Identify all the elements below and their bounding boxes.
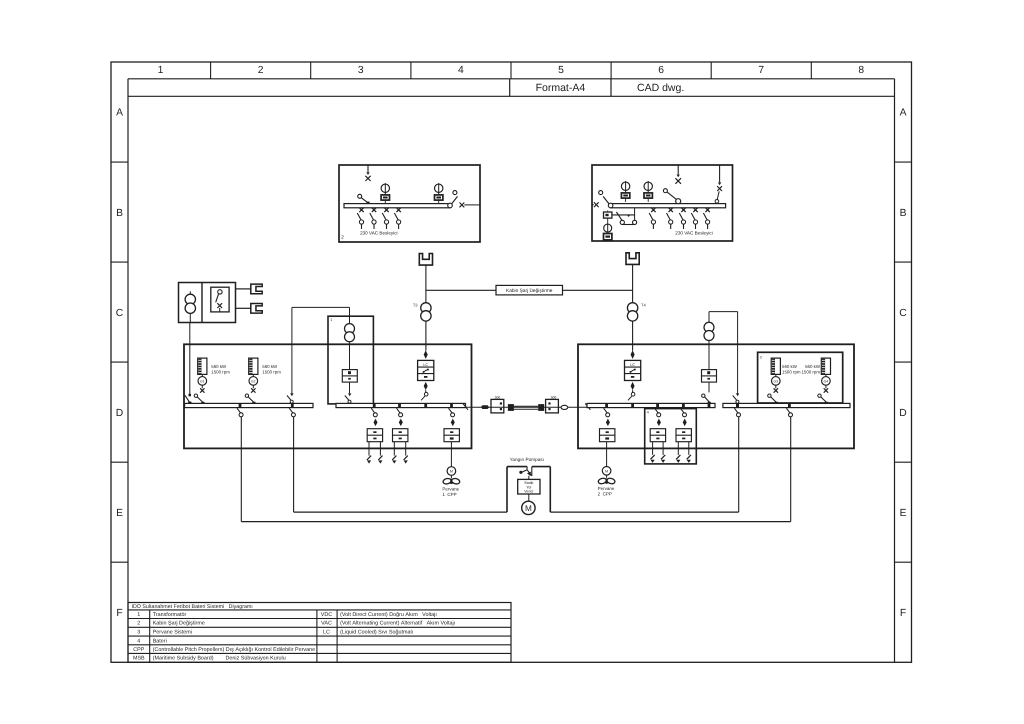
svg-text:D: D [899,408,906,419]
svg-text:1: 1 [158,65,164,76]
battery feeder 1 left [373,403,376,407]
svg-text:4: 4 [137,638,140,644]
svg-text:1: 1 [330,318,332,322]
shore plug upper [251,284,262,294]
branch to lower bus C [736,403,739,407]
transfer switch on busbar [676,199,681,204]
svg-text:LC: LC [630,363,635,367]
svg-text:CAD dwg.: CAD dwg. [637,82,684,94]
tie wire from busbar1 [291,307,293,394]
fuse X incoming [365,176,370,181]
svg-text:B: B [116,208,123,219]
generator enclosure box 3 [758,352,843,403]
svg-text:1500 rpm: 1500 rpm [262,370,281,375]
right feed X [717,186,722,191]
busbar R1 [587,403,715,407]
busbar L1 [185,403,313,407]
wire plug to T3 [425,265,427,303]
svg-text:F: F [900,608,906,619]
transformer shore [189,291,191,294]
svg-text:2 CPP: 2 CPP [598,492,612,497]
drop at 653.4 [651,208,655,212]
shore riser to busbar [189,314,191,323]
svg-text:560 kW: 560 kW [211,364,227,369]
svg-text:1500 rpm: 1500 rpm [782,370,801,375]
svg-text:Pervane Sistemi: Pervane Sistemi [153,630,192,636]
meter M2 [438,183,440,195]
svg-text:500: 500 [551,395,557,399]
svg-text:VAC: VAC [321,621,332,627]
svg-text:(Volt Direct Current) Doğru Ak: (Volt Direct Current) Doğru Akım Voltajı [340,612,437,618]
svg-text:(Controllable Pitch Propellers: (Controllable Pitch Propellers) Dış Açık… [153,647,315,653]
incoming feed arrow [367,165,369,172]
lower wire lower [241,521,790,523]
transfer blade [616,212,622,221]
svg-text:G1: G1 [200,380,205,384]
shore plug wires [236,288,251,290]
tie switch to busbar2 [349,382,351,393]
svg-text:Transformatör: Transformatör [153,612,187,618]
lower wire upper [294,511,507,513]
LC converter column T4 [631,350,635,359]
row dividers left/right [111,161,128,163]
tie riser foot [290,393,293,396]
tie converter cellbox [342,370,357,383]
breaker sub-box [211,287,229,312]
switch left feeder [358,194,362,198]
drop at 707.6 [705,208,709,212]
wire T4 down [632,321,634,350]
svg-text:B: B [900,208,907,219]
svg-text:2: 2 [137,621,140,627]
battery feeder 2 left [398,403,401,407]
yol verici box [518,479,540,494]
propeller feeder 2 [605,403,608,407]
transfer riser [634,208,636,221]
shore transfer unit box [604,212,612,218]
drop at 398.6 [396,208,400,212]
svg-text:Kabin Şarj Değiştirme: Kabin Şarj Değiştirme [506,288,553,294]
meter M4 [647,181,649,193]
svg-text:Bateri: Bateri [153,638,167,644]
svg-text:Verici: Verici [524,490,533,494]
top-left 230VAC feeder box [339,165,480,242]
svg-text:M: M [525,504,532,513]
coupling U 2 [602,467,611,476]
fire pump motor M [522,501,535,514]
svg-text:2: 2 [341,234,344,239]
top-right 230VAC feeder box [592,165,733,241]
right feed switch [717,191,719,199]
battery cells right 2 [676,455,680,459]
shore transformer box [179,283,236,323]
X right outgoing [460,203,465,208]
svg-text:1 CPP: 1 CPP [442,492,456,497]
svg-text:230 VAC Besleyici: 230 VAC Besleyici [675,230,712,235]
meter M3 [625,181,627,193]
feeder busbar right [611,204,726,208]
svg-text:5: 5 [558,65,564,76]
shore plug lower [251,304,262,314]
svg-text:560 kW: 560 kW [782,364,798,369]
drop at 695.5 [693,208,697,212]
tie converter cellbox right [702,370,717,383]
svg-text:LC: LC [323,630,330,636]
svg-text:3: 3 [137,630,140,636]
wire to box edge [464,204,480,206]
LC converter column T3 [424,350,428,359]
title strip line [128,95,895,97]
busbar R2 [723,403,850,407]
svg-text:500: 500 [495,395,501,399]
kabin sarj box [496,285,563,295]
svg-text:IDO Sultanahmet Feribot Bateri: IDO Sultanahmet Feribot Bateri Sistemi D… [132,604,253,610]
tie wire right [737,312,739,395]
cable connector B [538,404,544,411]
tie switch to busbar R1 [708,382,710,392]
propeller feeder 1 [450,403,453,407]
tie transformer [345,324,355,334]
svg-text:4: 4 [458,65,464,76]
drop at 361.5 [359,208,363,212]
svg-text:(Liquid Cooled) Sıvı Soğutmalı: (Liquid Cooled) Sıvı Soğutmalı [340,630,413,636]
generator G2 [249,358,258,374]
svg-text:E: E [900,508,907,519]
svg-text:M: M [605,470,608,474]
propeller 2 [598,477,607,484]
battery enclosure box 4 [645,409,697,464]
svg-text:G3: G3 [774,380,779,384]
svg-text:Pervane: Pervane [442,486,459,491]
switch at L2 end [463,403,468,409]
svg-text:8: 8 [858,65,864,76]
transformer T3 [421,303,431,313]
svg-text:A: A [116,108,123,119]
drop at 670.7 [669,208,673,212]
cable lines [514,405,538,407]
transfer feed arrow [677,165,679,174]
wire to right [563,289,633,291]
svg-text:3: 3 [760,355,762,359]
svg-text:230 VAC Besleyici: 230 VAC Besleyici [360,230,397,235]
node junction left [426,289,496,291]
propeller 1 [442,478,451,485]
svg-text:D: D [116,408,123,419]
branch to lower bus B [291,403,294,407]
svg-text:6: 6 [658,65,664,76]
battery feeder 2 right [682,403,685,407]
transfer X [675,178,681,184]
border frame outer [111,62,912,662]
svg-text:G2: G2 [251,380,256,384]
svg-text:3: 3 [358,65,364,76]
svg-text:LC: LC [423,363,428,367]
svg-text:T3: T3 [413,302,418,307]
drop at 683.5 [681,208,685,212]
busbar L2 [336,403,466,407]
title strip dividers [509,79,511,97]
battery feeder 1 right [656,403,659,407]
cable connector A [508,404,514,411]
svg-text:(Maritime Subsidy Board): (Maritime Subsidy Board) Deniz Sübvasiyo… [153,656,286,662]
drop at 374.0 [372,208,376,212]
svg-text:MSB: MSB [133,656,145,662]
tie riser foot right [736,393,739,396]
generator G4 [821,358,830,374]
svg-text:M: M [450,470,453,474]
svg-text:560 kW: 560 kW [262,364,278,369]
shore plug T3 [419,254,432,266]
tie transformer right [704,322,714,332]
wire to motor [528,494,530,501]
svg-text:E: E [116,508,123,519]
battery cells 1 [367,456,371,460]
generator G1 [198,358,207,374]
svg-text:G4: G4 [824,380,829,384]
pump transfer switch [526,467,528,470]
battery cells 2 [392,456,396,460]
svg-text:7: 7 [758,65,764,76]
center link wire [466,406,588,408]
svg-text:4: 4 [647,410,649,414]
feeder busbar left [344,204,450,208]
svg-text:1500 rpm: 1500 rpm [801,370,820,375]
svg-text:Kabin Şarj Değiştirme: Kabin Şarj Değiştirme [153,621,205,627]
svg-text:T4: T4 [641,302,646,307]
coupling U 1 [447,467,456,476]
right feed arrow [719,165,721,182]
drop at 386.5 [384,208,388,212]
svg-text:Yangın Pompası: Yangın Pompası [510,457,544,462]
generator G3 [771,358,780,374]
svg-text:CPP: CPP [133,647,144,653]
isolator oval [561,405,568,409]
inner tie transformer box [328,316,373,404]
transfer wire [612,214,635,216]
right main switchboard box [578,344,854,448]
wire T3 down [425,321,427,350]
top band line [128,78,895,80]
svg-text:C: C [899,308,907,319]
border frame inner verticals [127,79,129,663]
fuse black [481,405,489,409]
svg-text:560 kW: 560 kW [805,364,821,369]
transformer T4 [627,303,637,313]
svg-text:F: F [116,608,122,619]
legend table [128,603,511,663]
svg-text:VDC: VDC [321,612,332,618]
svg-text:C: C [116,308,124,319]
switch at R1 end [585,403,590,409]
svg-text:1: 1 [137,612,140,618]
branch to lower bus A [239,403,242,407]
wire plug to T4 [632,264,634,302]
branch to lower bus D [788,403,791,407]
svg-text:(Volt Alternating Current) Alt: (Volt Alternating Current) Alternatif Ak… [340,621,455,627]
transfer contact circles [620,220,624,224]
svg-text:A: A [900,108,907,119]
svg-text:2: 2 [258,65,264,76]
transfer meter [607,224,609,232]
incoming X left [594,202,599,207]
svg-text:Format-A4: Format-A4 [536,82,586,94]
shore plug T4 [626,253,639,265]
left main switchboard box [184,344,472,448]
busbar end switch right [448,203,453,208]
svg-text:1500 rpm: 1500 rpm [211,370,230,375]
meter M1 [384,183,386,195]
column dividers [210,62,212,79]
battery cells right 1 [651,455,655,459]
fire pump frame [506,467,508,512]
svg-text:Pervane: Pervane [598,486,615,491]
busbar end switch left [608,203,613,208]
